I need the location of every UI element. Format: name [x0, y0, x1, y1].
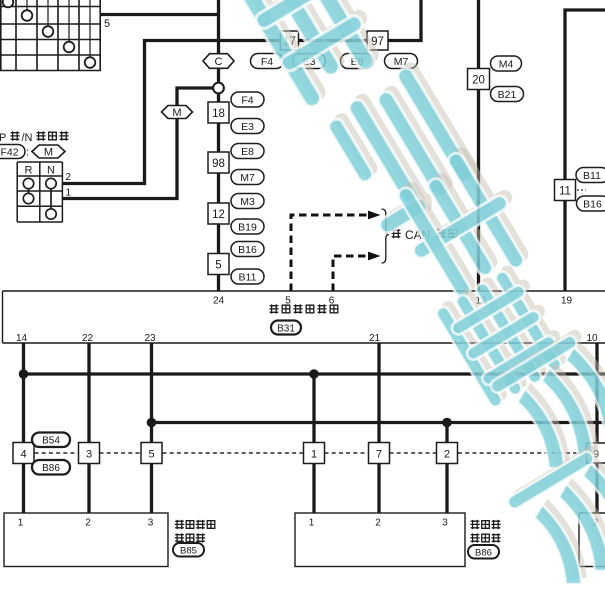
label 左后拐角 传感器 [175, 520, 215, 543]
svg-text:E3: E3 [241, 121, 254, 133]
svg-text:B54: B54 [42, 436, 60, 447]
svg-text:7: 7 [376, 449, 382, 461]
connector oval M3 [231, 194, 264, 209]
connector oval B54 [32, 433, 70, 448]
shield connector box 2 [437, 443, 458, 464]
wire from P/N switch pin 2 up and across to top right [63, 0, 422, 184]
svg-text:98: 98 [212, 158, 225, 170]
svg-text:3: 3 [86, 449, 92, 461]
contact circles [23, 178, 56, 219]
connector oval B86 (shield) [32, 460, 70, 475]
wire [217, 68, 220, 83]
junction dot [442, 418, 452, 428]
svg-text:B19: B19 [238, 222, 257, 234]
sensor box B87 (right rear, cut off) [579, 513, 605, 567]
svg-text:E8: E8 [241, 146, 254, 158]
wire bus2 down to sensor B86 pin3 [445, 423, 448, 514]
wire top drop at x=218.5 [217, 0, 220, 54]
svg-text:2: 2 [66, 172, 72, 183]
shield connector box 1 [304, 443, 325, 464]
wire pin10 down to sensor B87 pin2 [595, 343, 598, 513]
svg-text:14: 14 [16, 333, 28, 344]
svg-text:B11: B11 [239, 272, 257, 284]
svg-text:M3: M3 [240, 196, 255, 208]
label 至 CAN 系统 [391, 228, 457, 242]
connector oval F42 [0, 145, 25, 159]
label 后中央 传感器 [470, 520, 500, 543]
combination switch grid (top-left, cut off) [0, 0, 101, 71]
connector box 11 [555, 180, 576, 201]
arrowhead 1 [368, 211, 381, 220]
connector box 20 [468, 69, 490, 90]
shield connector box 5 [141, 443, 162, 464]
watermark char 2 [316, 59, 485, 239]
dotted leader to ovals [577, 189, 586, 191]
connector oval B19 [231, 219, 264, 234]
svg-text:5: 5 [215, 260, 221, 272]
svg-text:20: 20 [472, 75, 485, 87]
connector C hexagon [203, 54, 234, 69]
connector oval E8 (row 2) [341, 54, 374, 69]
svg-text:B11: B11 [583, 170, 601, 182]
watermark char 5 [489, 327, 605, 484]
shield dashed link line [35, 452, 587, 454]
connector M hexagon on branch [162, 106, 193, 120]
svg-text:F4: F4 [241, 95, 253, 107]
sonar control unit box B31 [3, 291, 605, 343]
svg-text:1: 1 [311, 449, 317, 461]
connector oval M4 [491, 56, 522, 71]
junction dot [309, 369, 319, 379]
right wire A from top into sonar unit pin 12 [477, 0, 480, 291]
sensor box B85 (left rear corner sensor) [4, 513, 168, 567]
connector box 5 [208, 254, 229, 275]
shield connector box 9 [587, 443, 605, 463]
connector box 98 [208, 152, 229, 173]
svg-text:1: 1 [309, 518, 315, 529]
svg-text:12: 12 [212, 209, 225, 221]
watermark char 1 [230, 0, 392, 110]
sensor box B86 (rear center sensor) [295, 513, 465, 567]
connector box 97 [367, 31, 388, 50]
connector oval B11 [231, 269, 264, 284]
sensor oval B86 [468, 545, 499, 559]
CAN dashed wire from pin 6 [333, 256, 368, 291]
svg-text:22: 22 [82, 333, 94, 344]
unit name 声纳控制单元 [269, 304, 338, 313]
svg-text:B21: B21 [498, 89, 517, 101]
svg-text:B85: B85 [180, 546, 197, 557]
CAN dashed wire from pin 5 [291, 215, 368, 291]
svg-text:1: 1 [18, 518, 24, 529]
connector oval E8 [231, 144, 264, 159]
svg-text:B86: B86 [475, 548, 492, 559]
svg-text:B16: B16 [583, 199, 602, 211]
svg-text:24: 24 [213, 296, 225, 307]
connector oval F4 (row 2) [251, 54, 284, 69]
svg-text:P: P [0, 132, 6, 144]
svg-text:3: 3 [148, 518, 154, 529]
wire branch to P/N switch pin 1 via M [63, 88, 216, 199]
svg-text:M: M [172, 107, 181, 119]
grid contact circles [3, 0, 96, 68]
shield bus wire 2 [152, 421, 605, 424]
svg-text:C: C [215, 56, 223, 68]
shield bus wire 1 [24, 372, 605, 375]
svg-text:2: 2 [444, 449, 450, 461]
svg-text:23: 23 [144, 333, 156, 344]
watermark char 4 [434, 260, 573, 409]
svg-text:B16: B16 [238, 244, 257, 256]
junction dot [19, 369, 29, 379]
wire pin22 down to sensor B85 pin2 [87, 343, 90, 513]
wire pin21 down to sensor B86 pin2 [377, 343, 380, 513]
svg-text:B31: B31 [277, 324, 295, 335]
wire pin14 down to sensor B85 pin1 [22, 343, 25, 513]
unit oval B31 [271, 321, 301, 335]
wire bus1 down to sensor B86 pin1 [312, 374, 315, 513]
connector oval F4 [231, 92, 264, 107]
connector M hexagon (at F42) [32, 145, 65, 159]
P/N switch label text [0, 131, 69, 144]
svg-text:2: 2 [375, 518, 381, 529]
brace bracket [382, 209, 390, 263]
watermark char 3 [381, 137, 545, 310]
svg-text:M4: M4 [499, 59, 514, 71]
junction circle node [213, 83, 224, 94]
arrowhead 2 [368, 252, 381, 261]
grid contact stub wires [8, 0, 90, 63]
contact connection lines [29, 184, 52, 215]
svg-text:18: 18 [212, 108, 225, 120]
P/N switch contact table [17, 162, 62, 222]
svg-text:B86: B86 [42, 463, 60, 474]
junction dot [147, 418, 157, 428]
connector oval M7 [231, 170, 264, 185]
main vertical wire to sonar unit pin 24 [217, 93, 220, 291]
connector oval E3 (row 2) [293, 54, 326, 69]
connector box 18 [208, 102, 229, 123]
sensor oval B85 [173, 543, 204, 557]
svg-text::: : [26, 147, 29, 159]
connector oval E3 [231, 119, 264, 134]
svg-text:N: N [47, 165, 55, 177]
svg-text:3: 3 [442, 518, 448, 529]
svg-text:4: 4 [20, 449, 26, 461]
svg-text:5: 5 [148, 449, 154, 461]
connector oval M7 (row 2) [385, 54, 418, 69]
watermark char 6 [506, 443, 605, 600]
svg-text:10: 10 [586, 333, 598, 344]
shield connector box 7 [369, 443, 390, 464]
svg-text:5: 5 [104, 18, 110, 30]
svg-text:M7: M7 [240, 172, 255, 184]
svg-text:1: 1 [66, 188, 72, 199]
connector oval B16 [231, 242, 264, 257]
right wire B from top-right corner into sonar unit pin 19 [565, 10, 605, 291]
svg-text:/N: /N [22, 132, 33, 144]
svg-text:19: 19 [561, 296, 573, 307]
shield connector box 4 [13, 443, 34, 464]
connector oval B21 [491, 87, 524, 102]
svg-text:11: 11 [559, 186, 571, 198]
svg-text:2: 2 [85, 518, 91, 529]
svg-text:M: M [44, 147, 53, 159]
connector box 17 [281, 31, 299, 50]
connector oval B16 (right) [577, 196, 605, 211]
svg-text:21: 21 [369, 333, 381, 344]
svg-text:F42: F42 [0, 147, 18, 159]
wire pin23 down to sensor B85 pin3 [150, 343, 153, 513]
connector oval B11 (right) [576, 168, 605, 183]
shield connector box 3 [79, 443, 100, 464]
svg-text:R: R [25, 165, 33, 177]
connector box 12 [208, 203, 229, 224]
svg-text:F4: F4 [261, 56, 273, 68]
wire from switch pin 5 [101, 13, 219, 16]
